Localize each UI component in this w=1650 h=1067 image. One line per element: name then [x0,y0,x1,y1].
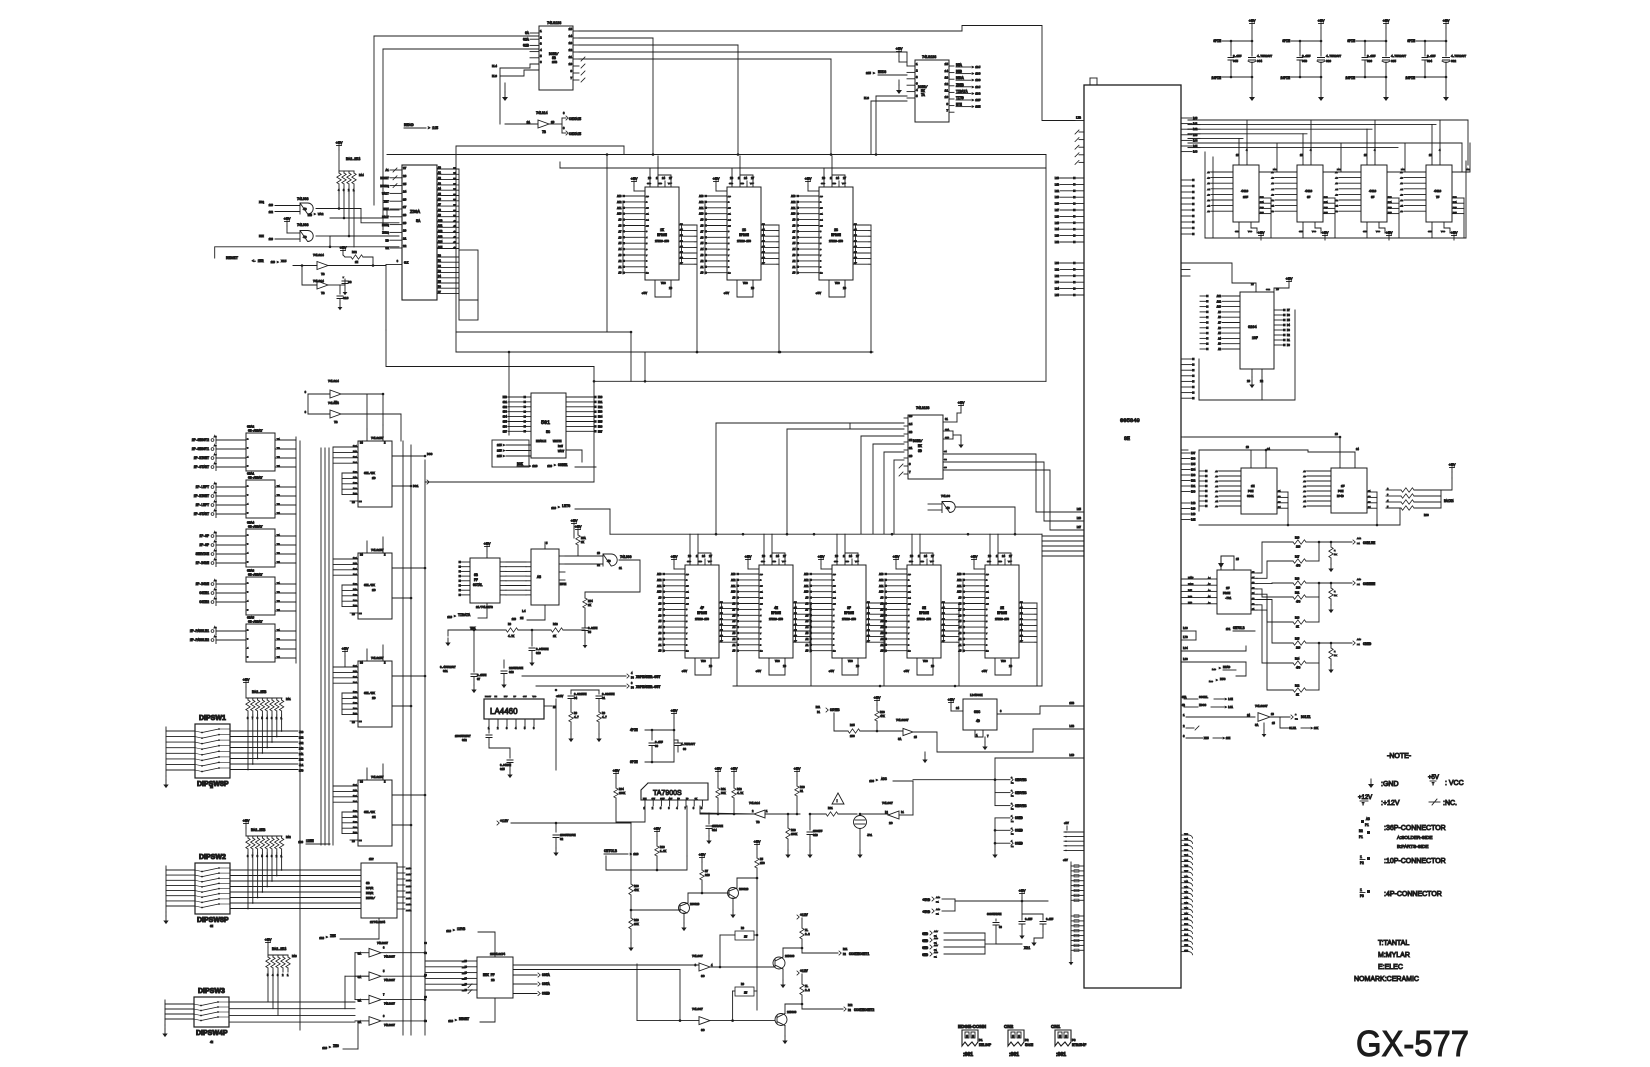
clk distribution wire [386,330,594,367]
row2 bottom bus [733,685,1042,687]
svg-text:2: 2 [916,70,918,73]
svg-text:O7: O7 [1252,576,1254,579]
svg-text:A2: A2 [1207,199,1210,202]
svg-text:8: 8 [1018,1036,1020,1040]
svg-text:LB4500Z: LB4500Z [970,694,983,697]
svg-text:C16: C16 [343,297,349,300]
svg-text:470: 470 [1296,601,1301,604]
svg-text:A6: A6 [1271,177,1274,180]
svg-text:5: 5 [760,620,762,623]
resistor array CNA1 CN-ARRAY [246,480,275,518]
svg-text:VPP: VPP [842,182,847,185]
svg-text:NMI: NMI [259,235,264,238]
svg-text:1K: 1K [1334,553,1337,556]
svg-text:GX-577: GX-577 [1356,1023,1469,1064]
svg-text:RP4D: RP4D [1337,495,1344,498]
svg-text:+5V: +5V [1063,859,1068,862]
svg-text:2B74LS174: 2B74LS174 [490,953,505,956]
svg-text:LTB: LTB [1076,116,1081,119]
svg-text:11: 11 [569,56,573,59]
svg-text:C5: C5 [588,631,592,634]
svg-text:4.7UF16VT: 4.7UF16VT [1326,55,1341,58]
svg-text:G2A: G2A [945,428,950,431]
svg-text:470: 470 [1296,565,1301,568]
svg-text:5: 5 [540,55,542,58]
svg-text:GND: GND [647,182,652,185]
svg-text:RA3: RA3 [292,955,297,958]
svg-text:R15: R15 [1295,638,1300,641]
svg-text:P1: P1 [1365,823,1369,827]
svg-text:GND: GND [772,560,777,563]
svg-text:27128-250: 27128-250 [695,618,709,621]
svg-text:EPROM: EPROM [739,233,749,237]
svg-text:23: 23 [833,585,836,588]
svg-text:CNA3: CNA3 [247,570,254,573]
RGB group junction verticals [1318,542,1320,561]
svg-text:6: 6 [760,626,762,629]
svg-text:A5: A5 [1207,182,1210,185]
svg-text:A4: A4 [214,500,217,503]
svg-text:L14: L14 [1055,228,1060,231]
svg-text:A5: A5 [214,462,217,465]
svg-text:4416: 4416 [1434,190,1441,193]
svg-text:>: > [554,463,556,467]
svg-text:1: 1 [287,974,289,977]
svg-text:10: 10 [728,272,731,275]
svg-text:C7: C7 [477,678,481,681]
svg-text:A1: A1 [701,266,704,269]
svg-text:A1: A1 [1271,205,1274,208]
svg-text:14: 14 [1356,448,1359,451]
svg-text:MREQ: MREQ [382,224,389,227]
address bus tie 4F [662,579,664,652]
3D input wires [850,422,904,424]
svg-text:8F: 8F [1371,196,1375,199]
svg-text:7: 7 [946,109,948,112]
svg-text:26: 26 [686,573,689,576]
svg-text:115: 115 [497,444,502,447]
svg-text:A2: A2 [214,531,217,534]
svg-text:A3: A3 [959,632,962,635]
svg-text:10K: 10K [634,923,639,926]
svg-text:R21: R21 [1295,592,1300,595]
svg-text:DIPSW3: DIPSW3 [198,988,225,995]
svg-text:PROM: PROM [1223,592,1230,595]
svg-text:2SW3: 2SW3 [406,897,412,900]
EPROM 3E lower bus vertical [958,603,960,686]
svg-text:2SC828: 2SC828 [739,888,749,891]
svg-text:74LS00: 74LS00 [620,555,632,559]
svg-text:6: 6 [646,248,648,251]
svg-text:O1: O1 [944,450,947,453]
svg-text:6301: 6301 [1247,495,1254,498]
EPROM 1K 27128-250 [645,187,679,280]
svg-text:9B: 9B [474,573,478,577]
svg-text:23: 23 [646,207,649,210]
svg-text:2E: 2E [372,816,376,819]
RA2.2K4 pull wires [338,193,340,209]
svg-text:5: 5 [247,561,249,564]
svg-text:A6: A6 [1400,177,1403,180]
svg-text:A7: A7 [619,230,622,233]
RAM 3 top feed verticals [1366,157,1368,159]
svg-text:A4: A4 [214,549,217,552]
RAM bus horizontals [1188,119,1468,121]
PROM 2F color [1217,570,1251,614]
svg-text:A10: A10 [699,213,704,216]
svg-text:R18: R18 [1295,578,1300,581]
svg-text:>: > [503,454,505,458]
svg-text:R13: R13 [737,788,742,791]
svg-text:WAIT: WAIT [382,193,389,196]
svg-text:XSPEAKER-OUT: XSPEAKER-OUT [636,686,660,690]
svg-text:A12: A12 [699,201,704,204]
svg-text::001: :001 [1056,1052,1066,1058]
svg-text:7: 7 [760,632,762,635]
svg-text:EN: EN [359,612,362,615]
svg-text:7B: 7B [321,292,325,295]
svg-text:+5VD: +5VD [922,898,930,902]
svg-text:DMA: DMA [956,63,962,67]
svg-text:5: 5 [247,656,249,659]
svg-text:A8: A8 [537,576,541,580]
svg-text:SEL/MX: SEL/MX [364,583,375,587]
svg-text:NF: NF [514,695,517,698]
svg-text:READ: READ [1223,666,1230,669]
svg-text:+5V: +5V [642,292,648,295]
svg-text:SD1: SD1 [503,401,508,404]
svg-text:P2: P2 [1360,861,1364,865]
svg-text:TIDATA: TIDATA [956,89,968,93]
resistor array CNA4 CN-ARRAY [246,529,275,567]
svg-text:12B: 12B [353,481,358,484]
RAM 4 RAS wire [1452,143,1470,172]
svg-text:2P-START: 2P-START [194,465,209,469]
svg-text:3: 3 [1183,735,1185,738]
svg-text:A4: A4 [1400,188,1403,191]
RAM 4 bottom pins [1431,222,1433,228]
gnd hook above 3F [845,553,858,559]
svg-text:C18: C18 [813,834,818,837]
svg-text:A17: A17 [934,944,939,947]
svg-text:4.7K: 4.7K [737,792,744,795]
gnd hook above 1C [740,175,753,181]
svg-text:DB5: DB5 [598,421,603,424]
svg-text:0.1UF: 0.1UF [1427,55,1436,58]
legend GND symbol [1370,779,1372,784]
svg-text:9: 9 [760,644,762,647]
svg-text:0.1UF: 0.1UF [1046,918,1054,921]
svg-text:2C: 2C [889,822,893,825]
svg-text:D2: D2 [1287,334,1290,337]
svg-text:4: 4 [247,600,249,603]
svg-text:VPP: VPP [750,182,755,185]
svg-text:GND: GND [834,560,839,563]
svg-text:2: 2 [384,554,386,557]
svg-text:> 13J: > 13J [972,65,981,69]
svg-text:NTE: NTE [956,103,962,107]
osc bottom pins [975,730,983,737]
svg-text:A8: A8 [659,603,662,606]
svg-text:BUFR/: BUFR/ [366,896,375,900]
svg-text:P1: P1 [934,956,937,959]
svg-text:A1: A1 [1335,205,1338,208]
svg-text:4416: 4416 [1305,190,1312,193]
RAM 4416 #2 [1297,165,1323,222]
svg-text:GND: GND [658,182,663,185]
EPROM 4F 27128-250 [685,565,719,658]
svg-text:A3: A3 [1271,193,1274,196]
chip right pins to 6264 [1181,262,1190,264]
svg-text:4: 4 [631,672,633,675]
svg-text:A10: A10 [657,591,662,594]
svg-text:12: 12 [945,83,949,86]
svg-text:A7: A7 [1271,171,1274,174]
svg-text:L31: L31 [1055,268,1060,271]
svg-text:>: > [329,1045,331,1049]
svg-text:GND: GND [987,560,992,563]
svg-text:A11: A11 [731,585,736,588]
svg-text:R28: R28 [791,829,796,832]
svg-text:24: 24 [908,596,911,599]
chip right pins to 2F PROM [1181,578,1207,580]
svg-text:BOOST: BOOST [485,695,492,698]
svg-text:7: 7 [908,632,910,635]
svg-text:8: 8 [966,1036,968,1040]
capacitor C4 + R9 [570,690,572,694]
svg-text:EPROM: EPROM [657,233,667,237]
svg-text:+5VD: +5VD [922,910,930,914]
svg-text:1: 1 [1360,888,1362,892]
svg-text:RL4: RL4 [492,65,497,68]
svg-text:A0: A0 [619,272,622,275]
svg-text:4C: 4C [607,560,611,563]
svg-text:1: 1 [353,189,355,192]
svg-text:A4: A4 [1215,485,1218,488]
svg-text:RA2.2K4: RA2.2K4 [346,158,360,162]
svg-text:CSDM1: CSDM1 [558,463,568,467]
wire 8B outputs [579,30,962,32]
mux 1C outputs [392,567,425,569]
svg-text:CNA4: CNA4 [247,522,254,525]
svg-text:R: R [1334,590,1336,593]
svg-text:LD0: LD0 [1191,491,1196,494]
svg-text:A0: A0 [733,650,736,653]
svg-text:R8: R8 [741,927,745,930]
svg-text:3B: 3B [366,882,370,885]
svg-text:23: 23 [686,585,689,588]
svg-text:RD: RD [385,239,389,242]
svg-text:ENABLE: ENABLE [536,440,546,443]
svg-text:14: 14 [849,555,853,558]
svg-text:C13: C13 [509,671,514,674]
svg-text:2: 2 [384,781,386,784]
svg-text:A18: A18 [934,951,939,954]
svg-text:26: 26 [820,195,823,198]
svg-text:9: 9 [986,644,988,647]
svg-text:A12: A12 [879,579,884,582]
svg-text:R9: R9 [741,983,745,986]
svg-text:A1: A1 [1215,500,1218,503]
svg-text:A5: A5 [793,242,796,245]
svg-text:LD4: LD4 [1191,469,1196,472]
RAM 4416 #3 [1361,165,1387,222]
net READ BUS loops [1236,662,1246,676]
svg-text:C1: C1 [602,697,606,700]
svg-text:R11: R11 [843,948,848,951]
buffer 5A 74LS367 #1 [369,948,381,957]
svg-text:25: 25 [820,224,823,227]
svg-text:2: 2 [497,727,499,730]
RGB ladder resistors [1257,542,1293,573]
svg-text:A11: A11 [438,225,443,228]
svg-text:VCC: VCC [1441,230,1446,233]
svg-text:6: 6 [533,727,535,730]
svg-text:G2B: G2B [523,44,529,48]
svg-text:24: 24 [986,596,989,599]
svg-text:VCC: VCC [1001,660,1006,663]
svg-text:5: 5 [247,609,249,612]
svg-text:A13: A13 [438,235,443,238]
svg-text:ZONB: ZONB [956,83,964,87]
svg-text:A4: A4 [214,597,217,600]
svg-text:ZL: ZL [805,929,809,932]
svg-text:25: 25 [908,602,911,605]
6264 bottom bus [1199,399,1295,401]
svg-text:C40: C40 [1302,60,1307,63]
svg-text:1C: 1C [372,589,376,592]
svg-text:27128-250: 27128-250 [737,240,751,243]
wires into 7A lower-left [876,95,907,97]
svg-text:M:MYLAR: M:MYLAR [1378,952,1410,959]
svg-text:P1: P1 [936,901,939,904]
svg-text:C44: C44 [1257,60,1262,63]
capacitor C1 + R6 [598,690,600,694]
svg-text:VCC: VCC [743,282,748,285]
svg-text:17: 17 [403,206,407,209]
svg-text:TIDATA: TIDATA [458,614,471,618]
svg-text:L10B: L10B [1188,582,1194,585]
svg-text:74LS07: 74LS07 [692,955,703,958]
svg-text:L66: L66 [1193,151,1198,154]
svg-text:15: 15 [909,415,913,418]
svg-text:A2: A2 [733,638,736,641]
svg-text:DCDR/: DCDR/ [913,439,923,443]
svg-text:5ACN: 5ACN [1025,1044,1033,1048]
svg-text:A3: A3 [793,254,796,257]
svg-text:13: 13 [569,42,573,45]
svg-text:0.1UFM: 0.1UFM [477,674,487,677]
svg-text:9: 9 [833,644,835,647]
svg-text:11A: 11A [353,562,358,565]
svg-text:13: 13 [909,431,913,434]
svg-text:C39: C39 [1326,60,1331,63]
svg-text:C2: C2 [560,838,564,841]
ground below 8B [504,83,506,92]
IC 501 outputs right [566,396,594,398]
svg-text:DXCS: DXCS [878,71,886,75]
svg-text:23: 23 [760,585,763,588]
svg-text:A10: A10 [957,591,962,594]
svg-text:2SW4: 2SW4 [406,891,412,894]
svg-text:P2: P2 [1025,1039,1029,1042]
svg-text:R20: R20 [800,786,805,789]
svg-text:10B: 10B [552,61,557,64]
svg-text:74LS08: 74LS08 [297,197,309,201]
svg-text:A10: A10 [804,591,809,594]
svg-text:A1: A1 [1207,205,1210,208]
svg-text:R04: R04 [619,788,624,791]
chip-to-PROM wires LD [1198,450,1200,511]
svg-text:8B: 8B [552,56,556,60]
svg-text:10B: 10B [353,583,358,586]
svg-text:+12V: +12V [800,913,808,917]
svg-text:T: T [1432,783,1435,787]
svg-text:A5: A5 [806,620,809,623]
capacitor C14 1UF16VE [708,813,710,824]
svg-text:P2: P2 [1011,782,1014,785]
svg-text:2: 2 [760,579,762,582]
DIPSW3 left rail + ground [164,1000,166,1025]
svg-text:0.01FM: 0.01FM [588,627,598,630]
svg-text:5: 5 [646,242,648,245]
svg-text:74LS367: 74LS367 [384,1003,395,1006]
svg-text:3C: 3C [701,975,705,978]
svg-text:5A: 5A [416,220,421,224]
svg-text:2E: 2E [1000,606,1004,610]
svg-text:9PIN: 9PIN [630,760,638,764]
svg-text:EPROM: EPROM [844,611,854,615]
svg-text:X15: X15 [1204,737,1209,740]
svg-text:DCLK1: DCLK1 [1301,715,1311,719]
svg-text:P3: P3 [1072,1039,1076,1042]
svg-text:SEL/MX: SEL/MX [364,810,375,814]
svg-text:P1: P1 [979,1039,983,1042]
svg-text:A11: A11 [1217,300,1222,303]
svg-text:SERVICE: SERVICE [196,552,209,556]
svg-text::36P-CONNECTOR: :36P-CONNECTOR [1384,825,1446,832]
svg-text:12B: 12B [353,820,358,823]
DIPSW3 wires to buffers [230,1001,355,1003]
svg-text:A2: A2 [214,435,217,438]
6264 bottom pins 20 22 [1251,369,1253,377]
svg-text:GND: GND [832,182,837,185]
address bus tie 4E [736,579,738,652]
svg-text:L32: L32 [1055,275,1060,278]
EPROM 3F 27128-250 [832,565,866,658]
svg-text:CGND: CGND [1015,841,1023,845]
svg-text:D5: D5 [1287,319,1290,322]
address bus tie 1C [704,201,706,274]
svg-text:VCC: VCC [533,695,537,698]
buffer feed verticals [354,953,356,1000]
svg-text:DIPSW8P: DIPSW8P [197,917,229,924]
svg-text:CHSYNC: CHSYNC [1015,791,1027,795]
svg-text:GND: GND [922,939,928,943]
svg-text:+5V: +5V [1428,775,1439,781]
svg-text:13A: 13A [353,800,358,803]
svg-text:VPP: VPP [930,560,935,563]
svg-text:A4: A4 [959,626,962,629]
svg-text:21: 21 [728,213,731,216]
svg-text:2: 2 [820,201,822,204]
svg-text:21: 21 [686,591,689,594]
svg-text:47K: 47K [880,715,885,718]
RAM 4 right pins [1452,197,1464,199]
svg-text:R35: R35 [850,724,855,727]
svg-text:4416: 4416 [1241,190,1248,193]
svg-text:R29: R29 [660,846,665,849]
